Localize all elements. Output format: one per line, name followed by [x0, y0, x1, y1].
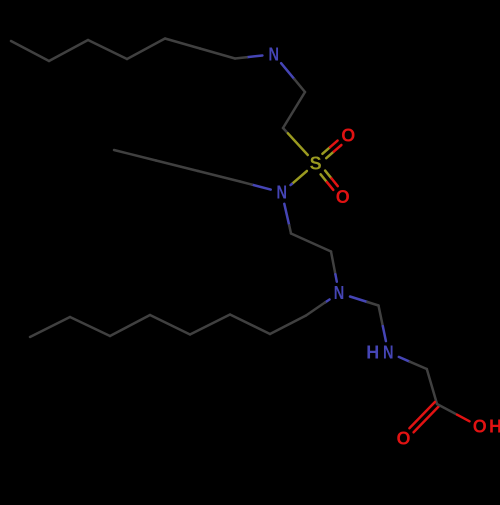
- bond Cc-OH: [437, 404, 457, 415]
- bond Cb-S: [283, 128, 288, 133]
- bond Ca-Cb: [283, 92, 305, 128]
- bond B2-B3: [230, 315, 270, 335]
- bond Cc-O3: [409, 402, 435, 428]
- bond C1-C2: [291, 234, 331, 252]
- bond B6-B7: [70, 317, 110, 336]
- bond Ce-NH: [379, 306, 383, 327]
- bond T4-T5: [88, 40, 127, 59]
- svg-text:O: O: [341, 125, 355, 145]
- bond C2-N3: [331, 252, 335, 275]
- svg-text:O: O: [336, 187, 350, 207]
- svg-text:N: N: [277, 183, 288, 203]
- bond N3-B1: [325, 300, 329, 303]
- bond B4-B5: [150, 315, 190, 335]
- bond M1-M2: [198, 171, 240, 182]
- bond N1-T1: [247, 56, 263, 58]
- bond NH-Cd: [399, 357, 410, 362]
- bond T5-T6: [49, 40, 88, 61]
- bond T3-T4: [127, 39, 165, 60]
- bond N2-M1: [252, 185, 271, 190]
- svg-text:S: S: [310, 154, 322, 174]
- bond S-N2: [292, 171, 307, 184]
- bond S-O1: [326, 152, 334, 159]
- svg-text:H: H: [366, 342, 379, 362]
- bond B5-B6: [110, 315, 150, 336]
- bond B3-B4: [190, 315, 230, 335]
- bond B1-B2: [270, 316, 306, 335]
- svg-text:H: H: [489, 417, 500, 437]
- bond T6-T7: [11, 41, 49, 61]
- svg-text:N: N: [269, 44, 280, 64]
- bond M2-M3: [156, 161, 198, 172]
- bond N1-Ca: [281, 63, 294, 79]
- bond M3-M4: [114, 150, 156, 161]
- bond Cd-Cc: [427, 369, 437, 404]
- bond N3-Ce: [350, 297, 367, 303]
- bond T2-T3: [165, 39, 200, 49]
- bond T1-T2: [200, 49, 235, 59]
- svg-text:O: O: [473, 417, 487, 437]
- bond N2-C1: [284, 204, 289, 226]
- svg-text:O: O: [396, 429, 410, 449]
- svg-text:N: N: [334, 283, 345, 303]
- bond B7-B8: [30, 317, 70, 337]
- svg-text:N: N: [383, 342, 394, 362]
- bond S-O2: [321, 174, 327, 182]
